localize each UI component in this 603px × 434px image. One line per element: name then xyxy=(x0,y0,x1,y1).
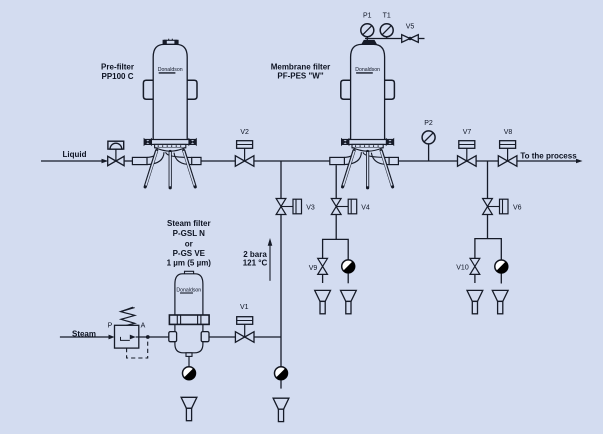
svg-text:V2: V2 xyxy=(240,129,249,136)
svg-text:V3: V3 xyxy=(306,204,315,211)
svg-text:P-GSL N: P-GSL N xyxy=(173,229,206,238)
svg-text:To the process: To the process xyxy=(520,152,577,161)
svg-text:V8: V8 xyxy=(504,129,513,136)
svg-text:P: P xyxy=(108,323,113,330)
svg-text:Pre-filter: Pre-filter xyxy=(101,62,134,71)
svg-text:V1: V1 xyxy=(240,304,249,311)
svg-text:Membrane filter: Membrane filter xyxy=(271,62,331,71)
svg-text:V10: V10 xyxy=(456,265,469,272)
svg-text:V7: V7 xyxy=(463,129,472,136)
svg-text:P2: P2 xyxy=(424,120,433,127)
svg-text:V4: V4 xyxy=(361,204,370,211)
svg-text:Steam: Steam xyxy=(72,329,96,338)
svg-text:121 °C: 121 °C xyxy=(243,259,268,268)
svg-text:2 bara: 2 bara xyxy=(243,250,267,259)
svg-text:1 µm (5 µm): 1 µm (5 µm) xyxy=(167,258,212,267)
svg-text:or: or xyxy=(185,239,193,248)
svg-text:V9: V9 xyxy=(309,265,318,272)
svg-text:P-GS VE: P-GS VE xyxy=(173,249,206,258)
svg-text:Liquid: Liquid xyxy=(63,150,87,159)
svg-text:Steam filter: Steam filter xyxy=(167,219,211,228)
svg-text:T1: T1 xyxy=(383,12,391,19)
svg-text:V6: V6 xyxy=(513,204,522,211)
svg-text:P1: P1 xyxy=(363,12,372,19)
svg-text:PF-PES "W": PF-PES "W" xyxy=(277,72,323,81)
svg-text:PP100 C: PP100 C xyxy=(101,72,133,81)
svg-text:V5: V5 xyxy=(406,23,415,30)
svg-text:A: A xyxy=(141,323,146,330)
